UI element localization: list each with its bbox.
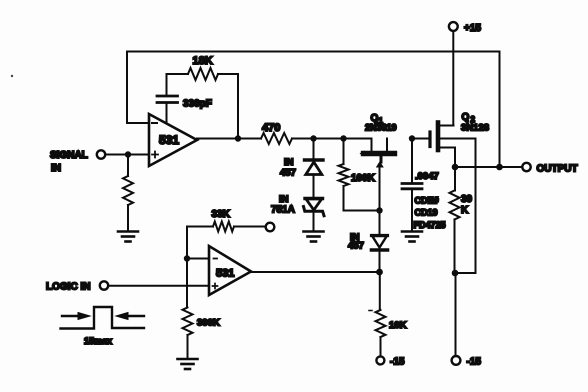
svg-text:751A: 751A [271, 205, 295, 216]
zener IN751A [271, 194, 324, 231]
op-amp U1 531 [149, 114, 197, 166]
ground: clamp [304, 232, 324, 242]
svg-text:100K: 100K [351, 173, 376, 184]
transistor Q2 3N128 [412, 112, 489, 167]
svg-text:-15: -15 [467, 357, 482, 368]
junction: divider tap [184, 255, 190, 261]
wire: logic input [108, 285, 209, 287]
wire: U1 output line [197, 138, 261, 140]
wire: reference divider riser [186, 227, 188, 308]
diode IN457 gate [348, 232, 388, 272]
junction: feedback tap on output [496, 164, 503, 171]
svg-text:LOGIC IN: LOGIC IN [46, 282, 90, 293]
svg-text:SIGNAL: SIGNAL [50, 150, 88, 161]
svg-text:OUTPUT: OUTPUT [537, 164, 578, 175]
junction: source node [452, 164, 459, 171]
svg-text:-15: -15 [390, 357, 405, 368]
svg-text:30: 30 [461, 194, 473, 205]
resistor 30K [450, 167, 473, 273]
wire: feedback bus right drop to output node [499, 52, 501, 168]
terminal: SIGNAL IN [50, 150, 105, 174]
junction: 100K node [340, 135, 346, 141]
wire: signal input [106, 154, 150, 156]
junction: clamp diode node [310, 135, 316, 141]
junction: feedback node at U1 output [235, 135, 241, 141]
svg-text:531: 531 [159, 133, 179, 147]
wire: feedback loop left riser [166, 104, 168, 124]
svg-text:2N3819: 2N3819 [365, 123, 397, 133]
diode IN457 clamp [280, 139, 323, 198]
wire: signal line to Q1 [292, 138, 372, 140]
svg-text:330pF: 330pF [183, 99, 212, 110]
resistor 33K [187, 209, 266, 232]
svg-text:470: 470 [262, 122, 280, 134]
junction: pulldown node [376, 269, 383, 276]
wire: 100K to Q1 gate node [344, 186, 380, 211]
svg-text:CDE#: CDE# [415, 196, 439, 206]
svg-text:10K: 10K [389, 320, 407, 331]
junction: -15 node [452, 270, 459, 277]
junction: Q1 gate node [376, 207, 382, 213]
wire: substrate return [455, 139, 476, 274]
svg-text:457: 457 [280, 168, 296, 179]
speck [11, 75, 13, 77]
junction: bypass cap node [409, 135, 415, 141]
ground: divider [178, 359, 198, 369]
terminal: -15 right [452, 356, 482, 368]
svg-text:+15: +15 [464, 23, 481, 34]
resistor 470 [261, 122, 292, 144]
wire: U2 output to pulldown node [251, 271, 380, 273]
svg-text:18K: 18K [193, 55, 213, 67]
terminal: -15 lower [376, 356, 404, 367]
svg-text:3N128: 3N128 [461, 123, 489, 134]
ground: signal input shunt [118, 232, 138, 242]
svg-text:33K: 33K [212, 209, 231, 220]
svg-text:531: 531 [216, 268, 234, 280]
svg-text:Q: Q [462, 112, 470, 123]
op-amp U2 531 [209, 246, 251, 295]
transistor Q1 2N3819 [360, 113, 397, 234]
svg-text:300K: 300K [197, 318, 220, 329]
ground: bypass cap [402, 232, 422, 242]
pulse waveform icon [61, 307, 145, 329]
terminal: OUTPUT [522, 163, 577, 175]
resistor: signal input shunt [123, 155, 133, 231]
wire: U2 inverting input [187, 258, 209, 260]
wire: feedback loop right drop [237, 74, 239, 139]
resistor 10K [369, 272, 407, 357]
wire: feedback bus top [127, 51, 500, 53]
svg-text:IN: IN [284, 157, 294, 168]
svg-text:IN: IN [51, 163, 61, 174]
resistor 100K [339, 139, 376, 187]
svg-text:CD19: CD19 [415, 208, 438, 218]
wire: output line [455, 166, 523, 168]
terminal: +15 [449, 22, 482, 34]
capacitor .0047 [402, 139, 446, 231]
resistor 300K [183, 308, 220, 359]
svg-text:FD4725: FD4725 [414, 220, 446, 230]
terminal: reference [266, 223, 275, 232]
svg-text:K: K [461, 205, 469, 216]
junction: signal input node [125, 151, 131, 157]
wire: U1 inverting input drop [127, 52, 149, 124]
wire: -15 feed [455, 273, 457, 356]
svg-text:.0047: .0047 [415, 171, 439, 182]
resistor 18K [167, 55, 239, 80]
svg-text:IN: IN [279, 194, 289, 205]
terminal: LOGIC IN [46, 281, 108, 292]
wire: +15 rail [452, 31, 454, 126]
svg-text:15max: 15max [84, 336, 112, 346]
capacitor 330pF [157, 74, 212, 110]
svg-text:457: 457 [348, 241, 364, 252]
